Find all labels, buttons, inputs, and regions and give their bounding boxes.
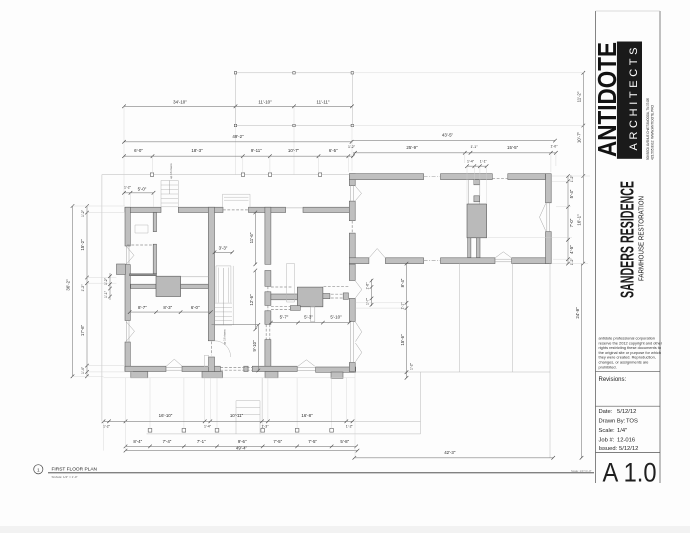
svg-text:SANDERS RESIDENCE: SANDERS RESIDENCE: [617, 181, 638, 298]
svg-text:Scale:: Scale:: [599, 428, 616, 434]
svg-text:7'-5": 7'-5": [273, 439, 282, 444]
bottom extensions: [104, 372, 356, 458]
wing top door dash: [492, 177, 508, 179]
svg-text:16'-8": 16'-8": [301, 413, 313, 418]
svg-text:11'-6": 11'-6": [249, 232, 254, 243]
chimney top dims: [467, 165, 487, 167]
wing bottom wall seg2: [441, 258, 496, 264]
flue outline below block: [311, 307, 315, 322]
svg-text:9'-11": 9'-11": [251, 148, 262, 153]
svg-text:Job #:: Job #:: [599, 438, 615, 444]
door swing hall: [215, 341, 231, 357]
porch inner line: [104, 377, 356, 379]
svg-text:49'-2": 49'-2": [232, 134, 244, 139]
svg-text:SCALE: 1/4" = 1'-0": SCALE: 1/4" = 1'-0": [52, 475, 78, 479]
fixture by wall: [204, 355, 208, 366]
separator line: [596, 452, 661, 454]
bottom wall segment 1b: [182, 366, 220, 371]
door V right wall door: [355, 281, 361, 298]
right tall wall seg3: [349, 233, 355, 264]
svg-text:1'-2": 1'-2": [410, 362, 414, 370]
dim row C line right: [353, 152, 556, 154]
right wall window lines: [351, 186, 354, 363]
svg-text:18'-3": 18'-3": [191, 148, 203, 153]
window V right wall lower b: [355, 343, 361, 362]
svg-text:5'-8": 5'-8": [340, 439, 349, 444]
right tall wall seg2: [349, 201, 355, 221]
interior stair treads: [215, 303, 232, 325]
right wall dashed opening: [351, 221, 353, 233]
svg-text:5'-0": 5'-0": [138, 186, 147, 191]
inner chain extensions: [355, 181, 572, 308]
right tall wall seg1: [349, 174, 355, 186]
interior wall stair hall upper: [208, 207, 214, 341]
svg-text:1'-4": 1'-4": [467, 160, 475, 164]
svg-text:8'-4": 8'-4": [133, 439, 142, 444]
wing porch lines: [356, 264, 551, 458]
interior wall hall right seg4: [265, 311, 271, 325]
wing chimney block: [467, 204, 487, 238]
post extension lines: [150, 378, 332, 429]
wing top wall seg2: [441, 174, 493, 180]
dim 42'-3" line: [354, 457, 553, 459]
dim 24'-8" line: [581, 264, 583, 458]
hall wall dashed window: [266, 324, 270, 339]
hall wall dashed door openings: [267, 286, 269, 311]
svg-text:6'-0": 6'-0": [191, 305, 200, 310]
wing right wall upper: [546, 174, 552, 203]
left exterior wall upper: [125, 207, 130, 246]
right tall wall seg6: [349, 363, 355, 372]
svg-text:15'-6": 15'-6": [400, 334, 405, 346]
center fireplace stub below: [323, 294, 330, 299]
wing porch dim chain: [406, 264, 408, 378]
svg-text:1/4": 1/4": [617, 428, 627, 434]
front porch edge line: [102, 175, 349, 422]
porch stair dim: [124, 192, 154, 194]
svg-text:8'-4": 8'-4": [400, 278, 405, 287]
stair width dim 3'-3": [215, 251, 233, 253]
exterior stair top left: [161, 181, 178, 207]
svg-text:1'-2": 1'-2": [81, 209, 85, 217]
svg-text:10'-11": 10'-11": [230, 413, 244, 418]
interior wall hall right seg5: [265, 340, 271, 367]
svg-text:9'-10": 9'-10": [252, 340, 257, 352]
closet wall top left: [153, 213, 156, 232]
upper porch posts: [234, 72, 353, 127]
right vertical dim chain: [582, 73, 584, 264]
center fireplace arm: [271, 294, 298, 300]
right tall wall seg4: [349, 264, 355, 280]
svg-text:1'-6": 1'-6": [366, 282, 370, 290]
left exterior wall middle: [125, 265, 130, 321]
wing window thin lines: [495, 203, 550, 262]
dim 11'-6": [254, 213, 256, 265]
main house top wall segment 1: [125, 207, 161, 212]
window V wing bottom: [496, 252, 512, 258]
fireplace lower-left tab: [290, 306, 300, 311]
title block borders: [596, 11, 661, 483]
closet wall lower segment: [153, 244, 156, 274]
interior stair rail: [216, 266, 231, 303]
upper porch outline: [236, 73, 353, 126]
svg-text:5/12/12: 5/12/12: [619, 446, 638, 452]
svg-text:ARCHITECTS: ARCHITECTS: [628, 48, 640, 151]
left fireplace block: [156, 276, 181, 296]
bottom wall window lines right: [297, 368, 315, 371]
left dim 36'-2" line: [72, 206, 74, 376]
bottom wall door jamb block: [244, 366, 248, 371]
svg-text:5'-10": 5'-10": [330, 315, 342, 320]
svg-text:11'-2": 11'-2": [577, 91, 582, 102]
svg-text:25'-9": 25'-9": [406, 145, 418, 150]
dim 49'-2" line: [124, 141, 352, 143]
left dim chain: [86, 206, 88, 376]
bottom wall window lines: [166, 367, 182, 370]
svg-text:1'-2": 1'-2": [103, 425, 111, 429]
svg-text:1'-1": 1'-1": [104, 290, 108, 298]
pocket door jamb block: [343, 293, 348, 299]
svg-text:34'-10": 34'-10": [173, 100, 187, 105]
bottom wall dashed door opening: [220, 367, 252, 370]
left chimney stub: [117, 264, 126, 275]
svg-text:7'-5": 7'-5": [308, 439, 317, 444]
interior wall hall right seg2: [265, 271, 271, 287]
porch lower edge lines: [147, 372, 421, 434]
svg-text:17'-6": 17'-6": [80, 324, 85, 336]
dim row C extensions: [153, 156, 349, 173]
svg-text:1'-2": 1'-2": [104, 277, 108, 285]
bay window outline: [223, 194, 251, 207]
left fireplace arm right: [181, 284, 209, 288]
svg-text:Date:: Date:: [599, 409, 613, 415]
svg-text:24'-8": 24'-8": [575, 307, 580, 319]
footing pier 4: [331, 372, 343, 378]
top wall window opening lines: [286, 207, 304, 209]
window V wing right: [540, 204, 546, 231]
wing right wall lower: [546, 232, 552, 264]
dim 9'-10": [257, 325, 259, 371]
svg-text:6'-5": 6'-5": [329, 148, 338, 153]
scan bottom strip: [0, 526, 690, 533]
svg-text:5'-3": 5'-3": [304, 315, 313, 320]
main house top wall segment 4: [303, 207, 352, 212]
wing left mini dims: [371, 279, 373, 306]
svg-text:4'-5": 4'-5": [569, 245, 574, 254]
closet bottom thin wall: [130, 274, 157, 276]
svg-text:prohibited.: prohibited.: [599, 364, 617, 369]
svg-text:11'-11": 11'-11": [317, 100, 330, 105]
left extensions: [73, 206, 134, 376]
room dim row 8'-7: [130, 311, 211, 313]
svg-text:7'-4": 7'-4": [163, 439, 172, 444]
left wall window lines: [126, 246, 129, 342]
svg-text:6'-0": 6'-0": [134, 148, 143, 153]
wing breezeway centerlines: [424, 177, 441, 261]
svg-text:16'-1": 16'-1": [577, 214, 582, 226]
svg-text:A 1.0: A 1.0: [603, 458, 657, 488]
svg-text:16'-10": 16'-10": [159, 413, 173, 418]
svg-text:12'-6": 12'-6": [249, 294, 254, 306]
svg-text:1'-7": 1'-7": [366, 297, 370, 305]
separator line: [596, 370, 661, 372]
right tall wall corner stub: [349, 258, 369, 264]
wing chimney neck top right: [474, 196, 480, 202]
wing top wall seg4: [508, 174, 546, 180]
svg-text:1'-2": 1'-2": [81, 284, 85, 292]
top wall french door dashed opening: [223, 209, 249, 211]
door dash stair hall: [210, 342, 212, 356]
window V bottom wall right: [298, 360, 315, 366]
window V wing left: [355, 186, 361, 200]
svg-text:423.505.8912 WWW.ANTIDOTE.PRO: 423.505.8912 WWW.ANTIDOTE.PRO: [650, 105, 655, 160]
window V right wall lower a: [355, 322, 361, 342]
svg-text:1: 1: [37, 467, 40, 473]
center fireplace block: [297, 287, 323, 307]
footing pier 3: [265, 372, 278, 378]
left exterior wall lower: [125, 342, 130, 372]
svg-text:1'-2": 1'-2": [124, 186, 132, 190]
wing chimney neck bottom right: [477, 238, 481, 258]
door V wing bottom gap: [369, 249, 385, 258]
svg-text:FIRST FLOOR PLAN: FIRST FLOOR PLAN: [52, 467, 98, 473]
svg-text:1'-1": 1'-1": [471, 145, 479, 149]
svg-text:Issued:: Issued:: [599, 446, 618, 452]
window V bottom wall: [167, 359, 183, 366]
cabinet left room: [135, 225, 148, 233]
svg-text:36'-2": 36'-2": [66, 279, 71, 291]
wing chimney neck top left: [469, 180, 480, 204]
bottom post dim chain: [126, 445, 357, 447]
bottom wall segment 2b: [316, 367, 356, 372]
copyright block: [599, 336, 663, 370]
logo black bar: [617, 42, 642, 159]
svg-text:Revisions:: Revisions:: [599, 377, 627, 383]
door leaf middle room: [287, 264, 295, 303]
dim 43'-5" line: [352, 140, 555, 142]
bottom porch posts: [148, 429, 333, 433]
right tall wall seg5: [349, 298, 355, 321]
svg-text:8'-3": 8'-3": [163, 305, 172, 310]
left fireplace arm left: [131, 284, 156, 288]
closet dashed rod: [127, 244, 154, 246]
interior wall hall right seg3: [265, 292, 271, 306]
window V left wall upper: [127, 247, 135, 265]
svg-text:3'-3": 3'-3": [219, 246, 228, 251]
svg-text:12-016: 12-016: [617, 438, 635, 444]
svg-text:15'-2": 15'-2": [80, 239, 85, 251]
svg-text:10'-7": 10'-7": [577, 131, 582, 143]
bottom wall segment 2: [252, 366, 297, 371]
svg-text:FARMHOUSE RESTORATION: FARMHOUSE RESTORATION: [639, 196, 646, 281]
wing bottom wall seg3: [512, 258, 552, 264]
svg-text:1'-4": 1'-4": [81, 366, 85, 374]
svg-text:1'-3": 1'-3": [262, 425, 270, 429]
wing top wall seg1: [349, 174, 423, 180]
footing pier 2: [202, 372, 223, 378]
svg-text:1'-4": 1'-4": [204, 425, 212, 429]
dim 12'-6": [254, 271, 256, 330]
dim 49'-4" line: [126, 450, 358, 452]
left mid mini chain: [109, 273, 111, 300]
svg-text:1'-1": 1'-1": [480, 160, 488, 164]
svg-text:7'-1": 7'-1": [197, 439, 206, 444]
svg-text:42'-3": 42'-3": [444, 450, 456, 455]
center fireplace dashed pocket door: [271, 287, 349, 310]
hall width line: [212, 324, 259, 326]
svg-text:up 16 risers: up 16 risers: [169, 163, 173, 179]
bottom wall segment 1: [125, 366, 166, 371]
niche line right of fireplace: [181, 276, 209, 278]
svg-text:7'-0": 7'-0": [569, 218, 574, 227]
front porch posts: [150, 173, 321, 176]
svg-text:1'-1": 1'-1": [401, 302, 405, 310]
room dim row 5'-7: [271, 322, 350, 324]
info rows: [599, 409, 639, 452]
svg-text:Drawn By:: Drawn By:: [599, 419, 626, 425]
plan title underline: [48, 472, 594, 474]
svg-text:5'-4": 5'-4": [569, 189, 574, 198]
svg-text:8'-7": 8'-7": [138, 305, 147, 310]
svg-text:up 16 risers: up 16 risers: [223, 329, 227, 345]
svg-text:5/12/12: 5/12/12: [617, 409, 636, 415]
dim row A line: [124, 105, 352, 107]
svg-text:1'-2": 1'-2": [348, 145, 356, 149]
dim row C right extensions: [465, 153, 556, 172]
dim row C line left: [124, 155, 353, 157]
main house top wall segment 3: [249, 207, 286, 212]
svg-text:15'-5": 15'-5": [507, 145, 519, 150]
main house top wall segment 2: [178, 207, 223, 212]
svg-text:1'-0": 1'-0": [551, 145, 559, 149]
front steps: [236, 401, 260, 434]
svg-text:43'-5": 43'-5": [442, 133, 454, 138]
svg-text:9'-6": 9'-6": [238, 439, 247, 444]
svg-text:TOS: TOS: [626, 419, 638, 425]
wing chimney neck bottom left: [468, 238, 471, 258]
svg-text:Scale: 1/4"=1'-0": Scale: 1/4"=1'-0": [571, 469, 592, 473]
svg-text:1'-2": 1'-2": [570, 258, 574, 266]
window V left wall lower: [127, 322, 135, 341]
separator line: [596, 405, 661, 407]
right chain extensions: [352, 73, 590, 264]
footing pier 1: [131, 372, 148, 378]
svg-text:1'-2": 1'-2": [346, 425, 354, 429]
interior wall hall right seg1: [265, 207, 271, 264]
right inner dim chain: [567, 176, 569, 264]
svg-text:10'-7": 10'-7": [288, 148, 300, 153]
interior stair centerline: [222, 268, 224, 325]
dim row A extensions: [124, 106, 352, 206]
wing bottom wall seg1: [385, 258, 423, 264]
plan title marker circle: [34, 465, 43, 474]
svg-text:5'-7": 5'-7": [280, 315, 289, 320]
svg-text:11'-10": 11'-10": [258, 100, 272, 105]
bottom bay dim row: [104, 420, 353, 422]
interior wall stair hall lower: [208, 357, 214, 372]
